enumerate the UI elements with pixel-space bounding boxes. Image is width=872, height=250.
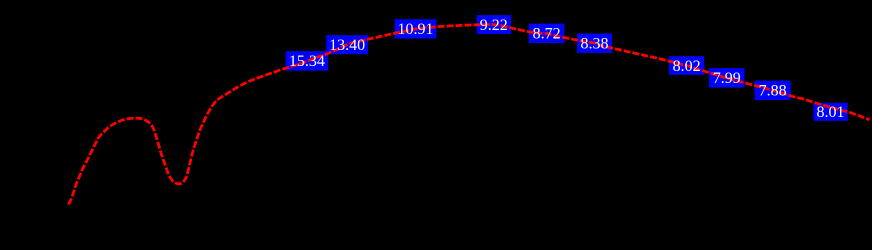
svg-text:7.99: 7.99	[713, 70, 741, 87]
svg-text:8.02: 8.02	[673, 58, 701, 75]
curve (red dashed data line)	[68, 25, 869, 205]
svg-text:15.34: 15.34	[289, 53, 325, 70]
svg-text:7.88: 7.88	[759, 83, 787, 100]
label box 9.22	[477, 15, 511, 34]
label box 15.34	[286, 51, 329, 70]
label box 10.91	[395, 19, 437, 38]
svg-text:13.40: 13.40	[329, 37, 365, 54]
label box 8.02	[669, 56, 704, 75]
label box 7.88	[755, 81, 791, 100]
label box 8.38	[577, 34, 612, 53]
label box 8.72	[529, 24, 565, 43]
svg-text:9.22: 9.22	[480, 17, 508, 34]
svg-text:8.38: 8.38	[581, 36, 609, 53]
svg-text:8.72: 8.72	[533, 26, 561, 43]
svg-text:10.91: 10.91	[398, 21, 434, 38]
svg-text:8.01: 8.01	[817, 104, 845, 121]
label box 13.40	[326, 35, 368, 54]
label box 7.99	[709, 68, 745, 87]
label box 8.01	[813, 103, 847, 121]
